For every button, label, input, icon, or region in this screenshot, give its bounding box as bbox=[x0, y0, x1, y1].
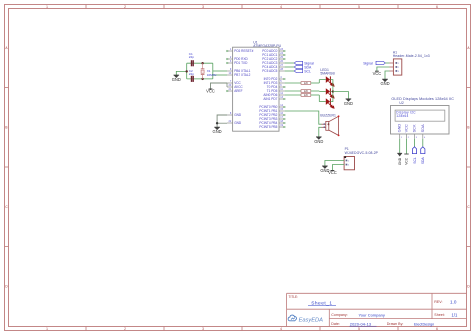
wire buzzer to gnd bbox=[319, 127, 322, 137]
svg-text:GND: GND bbox=[234, 121, 242, 125]
wire XTAL2 bottom bbox=[187, 78, 213, 80]
net flag Signal at H1 bbox=[363, 61, 389, 65]
svg-text:PC5 ADC5: PC5 ADC5 bbox=[262, 69, 277, 73]
svg-text:SCK: SCK bbox=[412, 124, 417, 132]
U1 pin 1 PC6 RESET# bbox=[226, 48, 253, 53]
wire crystal right vertical bbox=[212, 63, 214, 79]
U1 pin 12 AIN0 PD6 bbox=[263, 92, 284, 97]
capacitor C1 bbox=[192, 60, 194, 66]
svg-text:SCL: SCL bbox=[413, 157, 417, 164]
svg-text:PB7 XTAL2: PB7 XTAL2 bbox=[234, 73, 250, 77]
node LED cathode junction bbox=[332, 90, 334, 92]
OLED U2 screen bbox=[395, 110, 445, 121]
header H1 labels bbox=[393, 50, 430, 58]
svg-text:5MARGB: 5MARGB bbox=[320, 72, 335, 76]
svg-text:1.0: 1.0 bbox=[450, 300, 457, 305]
svg-text:Signal: Signal bbox=[363, 61, 373, 65]
wire VCC pin7 bbox=[211, 83, 228, 89]
wire LED cathode rail bbox=[330, 80, 333, 102]
svg-text:Company:: Company: bbox=[331, 313, 347, 317]
wire U2 gnd bbox=[399, 139, 401, 153]
net flag SDA on PC4 bbox=[285, 65, 312, 69]
svg-text:GND: GND bbox=[344, 101, 353, 106]
U1 pin 24 PC1 ADC1 bbox=[262, 52, 285, 57]
node crystal bottom junction bbox=[201, 78, 203, 80]
U2 pin 4 SDA bbox=[420, 124, 426, 139]
U1 pin 9 PB6 XTAL1 bbox=[227, 68, 251, 73]
wire XTAL2 to pin 10 bbox=[213, 74, 227, 76]
svg-text:AIN1 PD7: AIN1 PD7 bbox=[263, 97, 277, 101]
wire H1 pin2 to VCC bbox=[377, 67, 390, 71]
U1 pin 14 PCINT0 PB0 bbox=[259, 104, 285, 109]
svg-text:ElectDesign: ElectDesign bbox=[414, 322, 434, 326]
wire P1 pin1 to GND bbox=[325, 161, 344, 166]
svg-text:Date:: Date: bbox=[331, 322, 340, 326]
U1 pin 16 PCINT2 PB2 bbox=[259, 112, 285, 117]
svg-text:GND: GND bbox=[172, 77, 181, 82]
svg-text:220: 220 bbox=[304, 90, 309, 93]
node crystal top junction bbox=[201, 62, 203, 64]
svg-text:Header-Male-2.54_1x3: Header-Male-2.54_1x3 bbox=[393, 54, 430, 58]
svg-text:VCC: VCC bbox=[328, 170, 337, 175]
LED LED1-R bbox=[326, 76, 334, 86]
net flag Signal on PC3 bbox=[285, 61, 314, 65]
svg-text:GND: GND bbox=[234, 113, 242, 117]
svg-text:Drawn By:: Drawn By: bbox=[387, 322, 404, 326]
LED LED1-B bbox=[326, 98, 334, 108]
U1 pin 4 INT0 PD2 bbox=[264, 76, 286, 81]
svg-text:6: 6 bbox=[436, 327, 438, 331]
power VCC of U1 bbox=[206, 89, 215, 94]
svg-text:U2: U2 bbox=[399, 101, 403, 105]
svg-text:22p: 22p bbox=[189, 72, 194, 76]
svg-text:PCINT5 PB5: PCINT5 PB5 bbox=[259, 125, 277, 129]
svg-text:B: B bbox=[5, 126, 7, 130]
wire R1 to LED1 anode bbox=[318, 80, 320, 83]
capacitor C2 label bbox=[189, 69, 194, 76]
U1 pin 22 GND bbox=[227, 120, 242, 125]
header H1 Header-Male-2.54_1x3 bbox=[390, 59, 402, 75]
wire PB1 to buzzer bbox=[285, 111, 322, 124]
svg-text:TITLE:: TITLE: bbox=[289, 295, 299, 299]
svg-text:GND: GND bbox=[380, 81, 389, 86]
U1 pin 2 PD0 RXD bbox=[226, 56, 248, 61]
U1 pin 8 GND bbox=[227, 112, 242, 117]
wire LED2 anode bbox=[319, 91, 326, 93]
svg-text:GND: GND bbox=[314, 139, 323, 144]
wire LED to gnd bbox=[333, 92, 349, 99]
LED LED1 labels bbox=[320, 68, 335, 76]
wire GND pin8 bbox=[217, 115, 227, 127]
svg-text:VCC: VCC bbox=[373, 71, 382, 76]
resistor R3 220 (blue LED) bbox=[285, 94, 320, 97]
LED LED1-G bbox=[326, 88, 334, 98]
svg-text:VCC: VCC bbox=[404, 124, 409, 132]
svg-text:128x64: 128x64 bbox=[396, 114, 408, 118]
IC U1 body bbox=[233, 47, 279, 131]
svg-text:Sheet:: Sheet: bbox=[434, 313, 444, 317]
U1 pin 5 INT1 PD3 bbox=[264, 80, 285, 85]
U1 pin 21 AREF bbox=[226, 88, 242, 93]
OLED U2 body bbox=[391, 106, 450, 135]
net flag SCL on PC5 bbox=[285, 69, 311, 73]
svg-text:5: 5 bbox=[358, 5, 360, 9]
svg-text:6: 6 bbox=[436, 5, 438, 9]
resistor R1 220 (red LED) bbox=[285, 82, 320, 85]
svg-text:EasyEDA: EasyEDA bbox=[299, 317, 324, 323]
ground U1 bbox=[213, 127, 222, 134]
wire LED3 anode bbox=[319, 101, 326, 103]
U1 pin 23 PC0 ADC0 bbox=[262, 48, 285, 53]
date value bbox=[350, 321, 377, 326]
crystal X1 labels bbox=[207, 69, 217, 77]
svg-text:2: 2 bbox=[124, 327, 126, 331]
power VCC of H1 bbox=[373, 71, 382, 76]
svg-text:3: 3 bbox=[202, 5, 204, 9]
U1 pin 11 T1 PD5 bbox=[267, 88, 285, 93]
node crystal gnd junction bbox=[186, 70, 188, 72]
crystal X1 bbox=[201, 63, 205, 79]
U1 pin 26 PC3 ADC3 bbox=[262, 60, 284, 65]
wire R3 to LED3 anode bbox=[318, 95, 320, 102]
U2 pin 1 GND bbox=[397, 124, 403, 140]
node gnd junction U1 bbox=[216, 122, 218, 124]
svg-text:GND: GND bbox=[397, 124, 402, 133]
svg-text:PD1 TXD: PD1 TXD bbox=[234, 61, 248, 65]
svg-text:BUZZER1: BUZZER1 bbox=[320, 114, 336, 118]
U1 pin 27 PC4 ADC4 bbox=[262, 64, 284, 69]
svg-text:2: 2 bbox=[124, 5, 126, 9]
U1 pin 20 AVCC bbox=[227, 84, 243, 89]
connector P1 WJ4EDGVC-5.08-2P bbox=[344, 156, 354, 170]
U1 pin 10 PB7 XTAL2 bbox=[227, 72, 251, 77]
title value Sheet_1 bbox=[308, 300, 336, 306]
U1 pin 18 PCINT4 PB4 bbox=[259, 120, 285, 125]
wire XTAL1 top bbox=[187, 62, 213, 64]
svg-text:VCC: VCC bbox=[405, 157, 409, 165]
capacitor C1 label bbox=[189, 52, 194, 59]
svg-text:REV:: REV: bbox=[434, 300, 442, 304]
ground H1 bbox=[380, 79, 389, 86]
U1 pin 13 AIN1 PD7 bbox=[263, 96, 285, 101]
capacitor C2 bbox=[192, 76, 194, 82]
wire H1 pin3 to GND bbox=[385, 71, 390, 79]
svg-text:4: 4 bbox=[280, 5, 282, 9]
svg-text:1: 1 bbox=[46, 5, 48, 9]
wire AVCC tie bbox=[226, 83, 228, 87]
wire U2 vcc bbox=[406, 139, 408, 154]
ground U2 bbox=[397, 153, 402, 165]
U1 pin 6 T0 PD4 bbox=[267, 84, 286, 89]
svg-text:Your Company: Your Company bbox=[359, 312, 385, 317]
wire XTAL1 to pin 9 bbox=[213, 70, 227, 72]
ground P1 bbox=[320, 166, 329, 173]
svg-text:220: 220 bbox=[304, 94, 309, 97]
svg-text:PC6 RESET#: PC6 RESET# bbox=[234, 49, 253, 53]
svg-text:3: 3 bbox=[202, 327, 204, 331]
title block grid lines bbox=[287, 293, 467, 326]
svg-text:1/1: 1/1 bbox=[452, 312, 458, 317]
ground LED1 bbox=[344, 99, 353, 106]
U1 pin 17 PCINT3 PB3 bbox=[259, 116, 285, 121]
svg-text:1: 1 bbox=[46, 327, 48, 331]
power VCC of U2 bbox=[404, 154, 408, 165]
U1 pin 28 PC5 ADC5 bbox=[262, 68, 284, 73]
resistor R2 220 (green LED) bbox=[285, 90, 320, 93]
wire LED1 anode bbox=[319, 79, 326, 81]
svg-text:SCL: SCL bbox=[304, 69, 311, 73]
buzzer BUZZER1 bbox=[322, 115, 340, 136]
svg-text:16MHz: 16MHz bbox=[207, 73, 217, 77]
power VCC of P1 bbox=[328, 170, 337, 175]
wire GND pin22 bbox=[217, 122, 227, 124]
svg-text:SDA: SDA bbox=[421, 157, 425, 165]
svg-text:GND: GND bbox=[398, 157, 402, 165]
wire gnd rail left vertical bbox=[186, 63, 188, 79]
U1 pin 7 VCC bbox=[227, 80, 242, 85]
ground buzzer bbox=[314, 137, 323, 144]
svg-text:B: B bbox=[467, 126, 469, 130]
wire P1 pin2 to VCC bbox=[332, 165, 344, 171]
svg-text:WJ4EDGVC-5.08-2P: WJ4EDGVC-5.08-2P bbox=[345, 151, 379, 155]
wire to crystal gnd bbox=[176, 71, 186, 75]
OLED U2 screen text bbox=[396, 111, 416, 119]
svg-text:2020-04-13: 2020-04-13 bbox=[350, 321, 371, 326]
connector P1 labels bbox=[345, 147, 379, 155]
svg-text:VCC: VCC bbox=[206, 89, 215, 94]
svg-text:22p: 22p bbox=[189, 55, 194, 59]
EasyEDA logo bbox=[288, 315, 323, 323]
U1 pin 25 PC2 ADC2 bbox=[262, 56, 285, 61]
net flag SDA at U2 bbox=[421, 139, 425, 164]
net flag SCL at U2 bbox=[412, 139, 416, 164]
U2 pin 3 SCK bbox=[412, 124, 418, 139]
svg-text:220: 220 bbox=[304, 82, 309, 85]
U1 pin 3 PD1 TXD bbox=[226, 60, 248, 65]
U1 pin 19 PCINT5 PB5 bbox=[259, 124, 285, 129]
svg-text:SDA: SDA bbox=[420, 124, 425, 132]
ground crystal bbox=[172, 75, 181, 82]
U2 pin 2 VCC bbox=[404, 124, 410, 139]
svg-text:4: 4 bbox=[280, 327, 282, 331]
svg-text:AREF: AREF bbox=[234, 89, 242, 93]
U1 pin 15 PCINT1 PB1 bbox=[259, 108, 284, 113]
svg-text:GND: GND bbox=[213, 129, 222, 134]
svg-text:5: 5 bbox=[358, 327, 360, 331]
